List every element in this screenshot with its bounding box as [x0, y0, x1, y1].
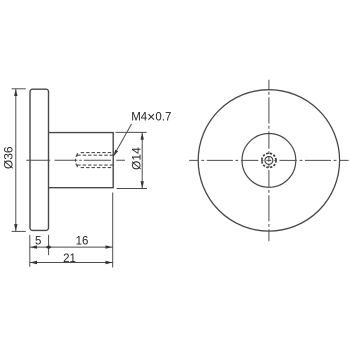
leader M4x0.7: leader line [114, 124, 132, 156]
front view: vertical centerline [268, 80, 270, 242]
front view: boss circle Ø14 [242, 134, 296, 188]
hidden drill hole line top [77, 154, 113, 156]
bottom extension line at boss right [112, 193, 114, 268]
leader M4x0.7: arrowhead [113, 150, 118, 157]
front view: drill hole circle [265, 156, 273, 164]
side view: flange outline [30, 89, 49, 230]
bottom extension line at flange left [29, 235, 31, 267]
svg-text:16: 16 [76, 236, 89, 248]
side view: boss outline [49, 133, 114, 188]
svg-text:Ø14: Ø14 [130, 147, 144, 170]
dimension Ø14: dimension line [141, 133, 143, 189]
svg-text:M4×0.7: M4×0.7 [131, 108, 171, 124]
dimension Ø14: bottom extension line [117, 188, 148, 190]
hidden thread major line top [81, 152, 114, 154]
svg-text:Ø36: Ø36 [2, 146, 16, 169]
dimension Ø14: top extension line [116, 131, 147, 133]
hidden thread major line bottom [81, 167, 114, 169]
dimension 5: arrow left [30, 245, 37, 248]
dimension 21: dimension line [30, 262, 113, 264]
hidden drill end vertical [76, 153, 78, 167]
svg-text:5: 5 [35, 236, 41, 248]
dimension 5/16: junction dot [45, 245, 52, 249]
dimension 21: arrow left [30, 261, 37, 264]
hidden drill hole line bottom [77, 164, 113, 166]
dimension Ø14: arrow down [141, 181, 144, 188]
dimension Ø36: bottom extension line [12, 230, 26, 232]
dimension Ø36: top extension line [12, 88, 26, 90]
dimension 21: arrow right [106, 261, 113, 264]
dimension 5/16: dimension line [30, 246, 113, 248]
dimension Ø14: arrow up [141, 132, 144, 139]
dimension Ø36: arrow down [14, 224, 17, 231]
dimension Ø36: arrow up [14, 89, 17, 96]
svg-text:21: 21 [63, 253, 76, 265]
front view: thread major dashed circle [262, 153, 276, 167]
front view: outer circle Ø36 [198, 90, 339, 231]
front view: horizontal centerline [189, 159, 348, 161]
dimension 16: arrow right [106, 245, 113, 248]
hidden drill point cone [75, 154, 77, 166]
side view: horizontal centerline [26, 159, 125, 161]
dimension Ø36: dimension line [15, 89, 17, 231]
bottom extension line at flange right [48, 235, 50, 255]
